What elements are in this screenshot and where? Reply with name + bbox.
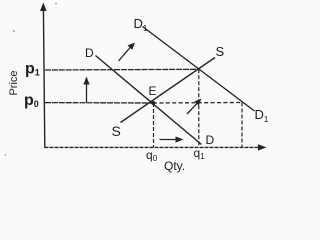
svg-text:E: E: [149, 84, 157, 98]
x-axis: [45, 144, 267, 150]
speck: [5, 154, 7, 156]
price line p0 solid part: [45, 102, 153, 104]
svg-text:Price: Price: [8, 70, 20, 95]
small diagonal arrow (new equilibrium): [187, 99, 201, 114]
quantity line at D1-p0 dashed: [241, 103, 243, 148]
supply curve S: [121, 58, 216, 123]
svg-text:S: S: [216, 44, 225, 59]
vertical shift arrow (price rise): [83, 77, 89, 103]
svg-text:S: S: [112, 123, 121, 139]
svg-text:D: D: [85, 46, 94, 60]
svg-text:Qty.: Qty.: [164, 159, 185, 173]
price line p0 dashed extension: [153, 102, 242, 105]
speck: [55, 3, 57, 5]
quantity line q1 dashed: [198, 69, 200, 147]
y-axis: [40, 3, 47, 148]
speck: [13, 30, 15, 32]
quantity line q0 dashed: [153, 103, 155, 147]
shifted demand curve D1: [143, 27, 255, 112]
horizontal shift arrow (quantity rise): [160, 136, 184, 142]
diagonal shift arrow (demand shift, top): [119, 43, 136, 62]
demand curve D: [96, 56, 202, 145]
equilibrium point E dot: [151, 101, 155, 105]
svg-text:D: D: [206, 133, 215, 147]
price line p1: [45, 68, 199, 71]
